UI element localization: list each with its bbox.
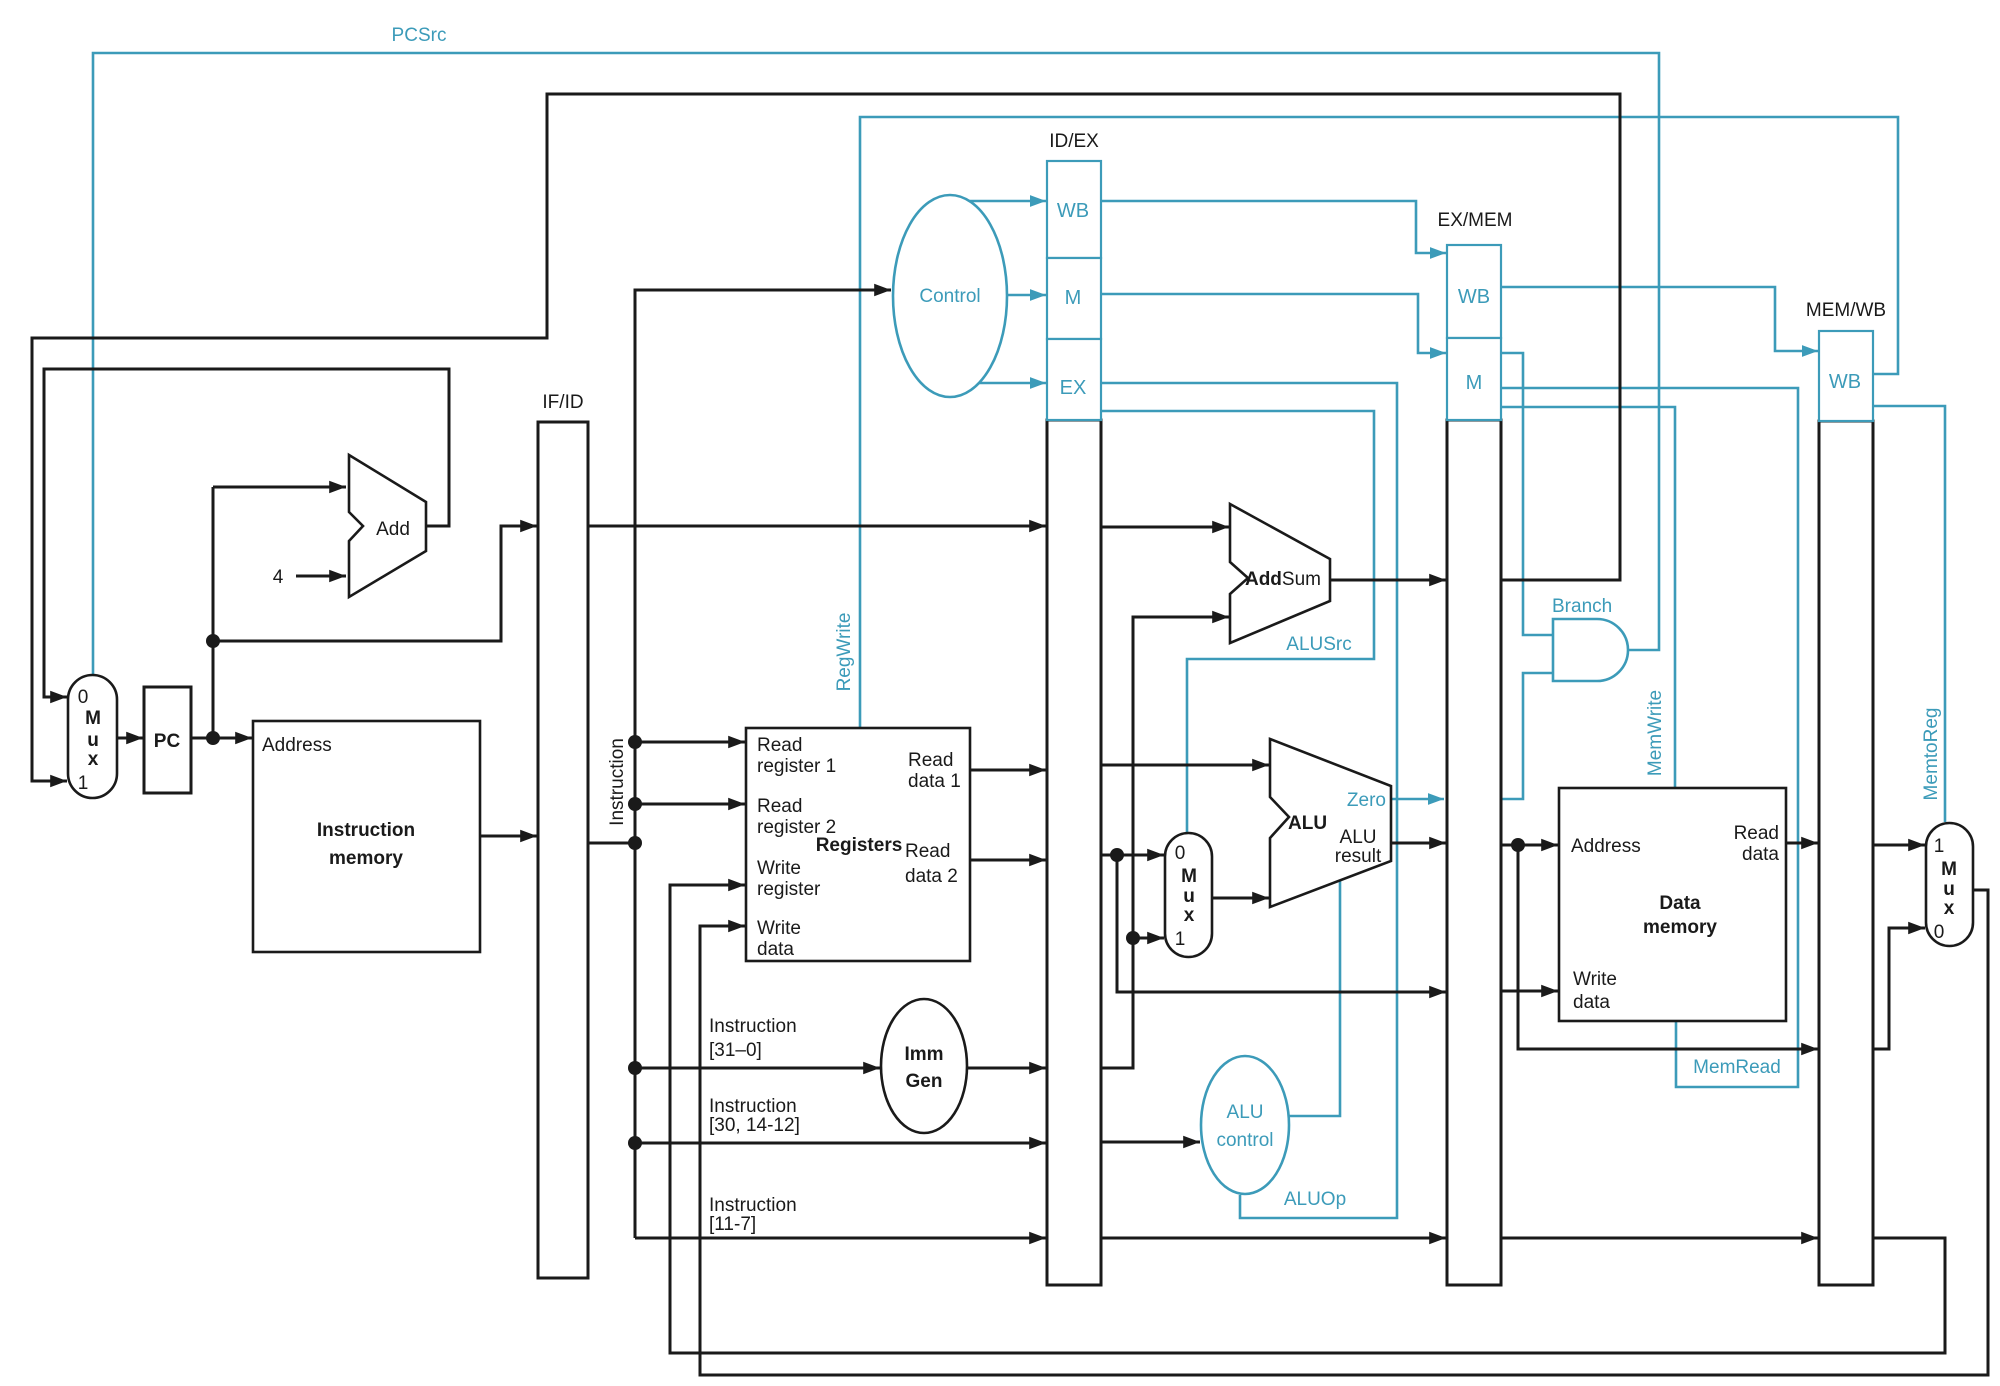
wire write register number EX/MEM to MEM/WB: [1501, 1237, 1818, 1240]
register ID/EX: [1047, 131, 1101, 1285]
svg-text:1: 1: [1175, 929, 1186, 950]
svg-text:Read: Read: [757, 796, 802, 817]
svg-text:EX: EX: [1060, 377, 1087, 399]
pipeline control box EX/MEM M: [1447, 338, 1501, 420]
svg-text:Control: Control: [919, 286, 980, 307]
wire EX/MEM.WB to MEM/WB.WB: [1501, 287, 1818, 351]
control unit ALU control: [1201, 1056, 1289, 1194]
wire Zero: ALU to EX/MEM: [1391, 798, 1444, 801]
wire ALUOp: ID/EX.EX to ALU control: [1101, 383, 1397, 1218]
wire ALU control to ALU: [1289, 877, 1340, 1116]
svg-text:WB: WB: [1057, 200, 1089, 222]
svg-text:ALU: ALU: [1227, 1102, 1264, 1123]
wire EX/MEM ALU result to Data memory Address: [1501, 844, 1558, 847]
svg-text:WB: WB: [1458, 286, 1490, 308]
wire PC value riser: [212, 487, 215, 738]
svg-text:Instruction: Instruction: [709, 1096, 797, 1117]
svg-text:control: control: [1216, 1130, 1273, 1151]
wire Branch: EX/MEM.M to AND gate top input: [1501, 353, 1553, 635]
wire ID/EX.M to EX/MEM.M: [1101, 294, 1446, 353]
wire Read data 2 to ID/EX: [970, 859, 1046, 862]
adder Add Sum (branch target): [1230, 504, 1330, 643]
wire 4 to Add bottom input: [296, 575, 346, 578]
svg-text:0: 0: [78, 687, 89, 708]
pipeline control box MEM/WB WB: [1819, 331, 1873, 421]
wire instruction to Read register 1: [635, 741, 745, 744]
wire Control to ID/EX WB: [967, 200, 1046, 203]
svg-text:register 1: register 1: [757, 756, 836, 777]
register EX/MEM: [1438, 210, 1513, 1285]
mux M3 MemtoReg mux: [1926, 823, 1973, 946]
svg-text:x: x: [1944, 898, 1955, 919]
svg-text:Read: Read: [908, 750, 953, 771]
node Instruction [31-0] label: [709, 1016, 797, 1061]
svg-text:u: u: [1183, 886, 1195, 907]
svg-text:Data: Data: [1659, 893, 1701, 914]
wire instruction distribution bus: [635, 290, 891, 1238]
svg-text:[11-7]: [11-7]: [709, 1214, 756, 1235]
svg-text:AddSum: AddSum: [1245, 569, 1321, 590]
svg-text:result: result: [1335, 846, 1382, 867]
svg-text:u: u: [87, 730, 99, 751]
svg-text:1: 1: [1934, 836, 1945, 857]
junction instruction to read register 2: [628, 797, 642, 811]
svg-text:M: M: [1065, 287, 1082, 309]
svg-text:[30, 14-12]: [30, 14-12]: [709, 1115, 800, 1136]
wire ID/EX.WB to EX/MEM.WB: [1101, 201, 1446, 253]
svg-text:memory: memory: [329, 848, 403, 869]
pipeline control box ID/EX WB: [1047, 161, 1101, 258]
wire instruction [30,14-12] to ID/EX: [635, 1142, 1046, 1145]
svg-text:ALUOp: ALUOp: [1284, 1189, 1346, 1210]
wire immediate to Add Sum bottom input: [1101, 617, 1229, 1068]
wire ALU result to EX/MEM: [1391, 842, 1446, 845]
svg-text:data 1: data 1: [908, 771, 961, 792]
svg-text:EX/MEM: EX/MEM: [1438, 210, 1513, 231]
wire ALU result bypass to MEM/WB: [1518, 845, 1818, 1049]
wire PC mux output to PC: [117, 737, 143, 740]
svg-text:Write: Write: [757, 858, 801, 879]
adder Add (PC+4): [349, 455, 426, 597]
svg-text:[31–0]: [31–0]: [709, 1040, 762, 1061]
wire Imm Gen to ID/EX: [967, 1067, 1046, 1070]
svg-text:Read: Read: [1734, 823, 1779, 844]
svg-text:ID/EX: ID/EX: [1049, 131, 1099, 152]
svg-text:data: data: [757, 939, 794, 960]
wire PC+4 return: Add output to PC mux input 0: [44, 369, 449, 697]
svg-text:Gen: Gen: [906, 1071, 943, 1092]
svg-text:PC: PC: [154, 731, 181, 752]
svg-text:PCSrc: PCSrc: [392, 25, 447, 46]
svg-text:ALU: ALU: [1288, 813, 1327, 834]
wire write register number ID/EX to EX/MEM: [1101, 1237, 1446, 1240]
wire PC to Instruction memory Address: [191, 737, 252, 740]
node Instruction [30,14-12] label: [709, 1096, 800, 1136]
svg-text:WB: WB: [1829, 371, 1861, 393]
wire PC to Add top input: [213, 486, 346, 489]
wire PCSrc: Branch AND output up and across to PC mux select: [93, 53, 1659, 674]
svg-text:data: data: [1742, 844, 1779, 865]
wire ID/EX funct to ALU control: [1101, 1141, 1200, 1144]
svg-text:ALUSrc: ALUSrc: [1286, 634, 1351, 655]
wire instruction out of IF/ID: [588, 842, 635, 845]
svg-text:Instruction: Instruction: [607, 738, 628, 826]
svg-text:MEM/WB: MEM/WB: [1806, 300, 1886, 321]
svg-text:0: 0: [1934, 922, 1945, 943]
wire branch target return: EX/MEM Add result back to PC mux input 1: [32, 94, 1620, 781]
pipeline control box ID/EX M: [1047, 258, 1101, 339]
wire Instruction memory to IF/ID: [480, 835, 537, 838]
svg-text:MemWrite: MemWrite: [1645, 690, 1666, 776]
svg-text:data 2: data 2: [905, 866, 958, 887]
register IF/ID: [538, 392, 588, 1278]
wire ID/EX read data 2 to ALUSrc mux input 0: [1101, 854, 1164, 857]
wire MemtoReg: MEM/WB.WB to MemtoReg mux select: [1873, 406, 1945, 822]
svg-text:Instruction: Instruction: [709, 1195, 797, 1216]
wire instruction to Read register 2: [635, 803, 745, 806]
svg-text:Read: Read: [757, 735, 802, 756]
block Imm Gen: [881, 999, 967, 1133]
gate Branch AND: [1553, 619, 1628, 681]
wire EX/MEM write data to Data memory: [1501, 990, 1558, 993]
svg-text:memory: memory: [1643, 917, 1717, 938]
svg-text:M: M: [1941, 859, 1957, 880]
junction ALU result at data memory: [1511, 838, 1525, 852]
wire ALUSrc mux output to ALU bottom input: [1212, 897, 1269, 900]
wire MEM/WB ALU result to MemtoReg mux input 0: [1873, 928, 1925, 1049]
junction instruction to read register 1: [628, 735, 642, 749]
wire Control to ID/EX EX: [977, 382, 1046, 385]
wire Control to ID/EX M: [1007, 294, 1046, 297]
svg-text:Write: Write: [757, 918, 801, 939]
svg-text:Address: Address: [1571, 836, 1641, 857]
wire MemWrite: EX/MEM.M to Data memory top: [1501, 407, 1675, 788]
junction instruction funct field: [628, 1136, 642, 1150]
junction immediate to mux: [1126, 931, 1140, 945]
svg-text:IF/ID: IF/ID: [542, 392, 583, 413]
wire Data memory Read data to MEM/WB: [1786, 842, 1818, 845]
wire PC to IF/ID: [213, 526, 537, 641]
svg-text:Registers: Registers: [816, 835, 903, 856]
svg-text:4: 4: [273, 567, 284, 588]
svg-text:Instruction: Instruction: [709, 1016, 797, 1037]
wire Zero continued: EX/MEM to AND gate bottom input: [1501, 673, 1553, 799]
svg-text:M: M: [1181, 866, 1197, 887]
svg-text:x: x: [88, 749, 99, 770]
junction instruction to Imm Gen: [628, 1061, 642, 1075]
svg-text:u: u: [1943, 879, 1955, 900]
svg-text:Read: Read: [905, 841, 950, 862]
svg-text:MemtoReg: MemtoReg: [1921, 708, 1942, 801]
wire immediate to ALUSrc mux input 1: [1133, 937, 1164, 940]
block Data memory: [1559, 788, 1786, 1021]
svg-text:1: 1: [78, 773, 89, 794]
wire instruction [11-7] to ID/EX: [635, 1237, 1046, 1240]
wire MemRead: EX/MEM.M to Data memory bottom: [1501, 388, 1798, 1087]
mux M1 PC source mux: [68, 675, 117, 798]
node Instruction [11-7] label: [709, 1195, 797, 1235]
svg-text:Imm: Imm: [904, 1044, 943, 1065]
pipeline control box ID/EX EX: [1047, 339, 1101, 420]
svg-text:M: M: [85, 708, 101, 729]
svg-text:Branch: Branch: [1552, 596, 1612, 617]
junction PC output: [206, 731, 220, 745]
svg-text:0: 0: [1175, 843, 1186, 864]
alu ALU: [1270, 739, 1391, 907]
junction PC riser at IF/ID feed: [206, 634, 220, 648]
svg-text:register: register: [757, 879, 821, 900]
wire ALUSrc: ID/EX.EX to ALUSrc mux select: [1101, 411, 1374, 832]
wire Read data 1 to ID/EX: [970, 769, 1046, 772]
wire read data 2 down to write data path: [1117, 855, 1446, 992]
svg-text:data: data: [1573, 992, 1610, 1013]
mux M2 ALUSrc mux: [1165, 833, 1212, 957]
register PC: [144, 687, 191, 793]
svg-text:x: x: [1184, 905, 1195, 926]
svg-text:Write: Write: [1573, 969, 1617, 990]
wire ID/EX read data 1 to ALU top input: [1101, 764, 1269, 767]
wire IF/ID PC out to ID/EX: [588, 525, 1046, 528]
svg-text:Add: Add: [376, 519, 410, 540]
svg-text:ALU: ALU: [1340, 827, 1377, 848]
block Registers: [746, 728, 970, 961]
wire instruction to Imm Gen: [635, 1067, 880, 1070]
svg-text:Zero: Zero: [1347, 790, 1386, 811]
wire ID/EX PC out to Add Sum top input: [1101, 526, 1229, 529]
junction read data 2 branch: [1110, 848, 1124, 862]
wire Add Sum output to EX/MEM: [1330, 579, 1446, 582]
register MEM/WB: [1806, 300, 1886, 1285]
svg-text:M: M: [1466, 372, 1483, 394]
block Instruction memory: [253, 721, 480, 952]
wire RegWrite: MEM/WB.WB right edge up across to Registers top: [860, 117, 1898, 727]
wire MemtoReg mux output back to Registers write data: [700, 890, 1988, 1375]
svg-text:Address: Address: [262, 735, 332, 756]
control unit Control: [893, 195, 1007, 397]
svg-text:Instruction: Instruction: [317, 820, 415, 841]
pipeline control box EX/MEM WB: [1447, 245, 1501, 338]
wire write register number back to Registers write register: [670, 885, 1945, 1353]
junction instruction bus source: [628, 836, 642, 850]
wire MEM/WB read data to MemtoReg mux input 1: [1873, 844, 1925, 847]
svg-text:MemRead: MemRead: [1693, 1057, 1781, 1078]
svg-text:RegWrite: RegWrite: [834, 613, 855, 692]
